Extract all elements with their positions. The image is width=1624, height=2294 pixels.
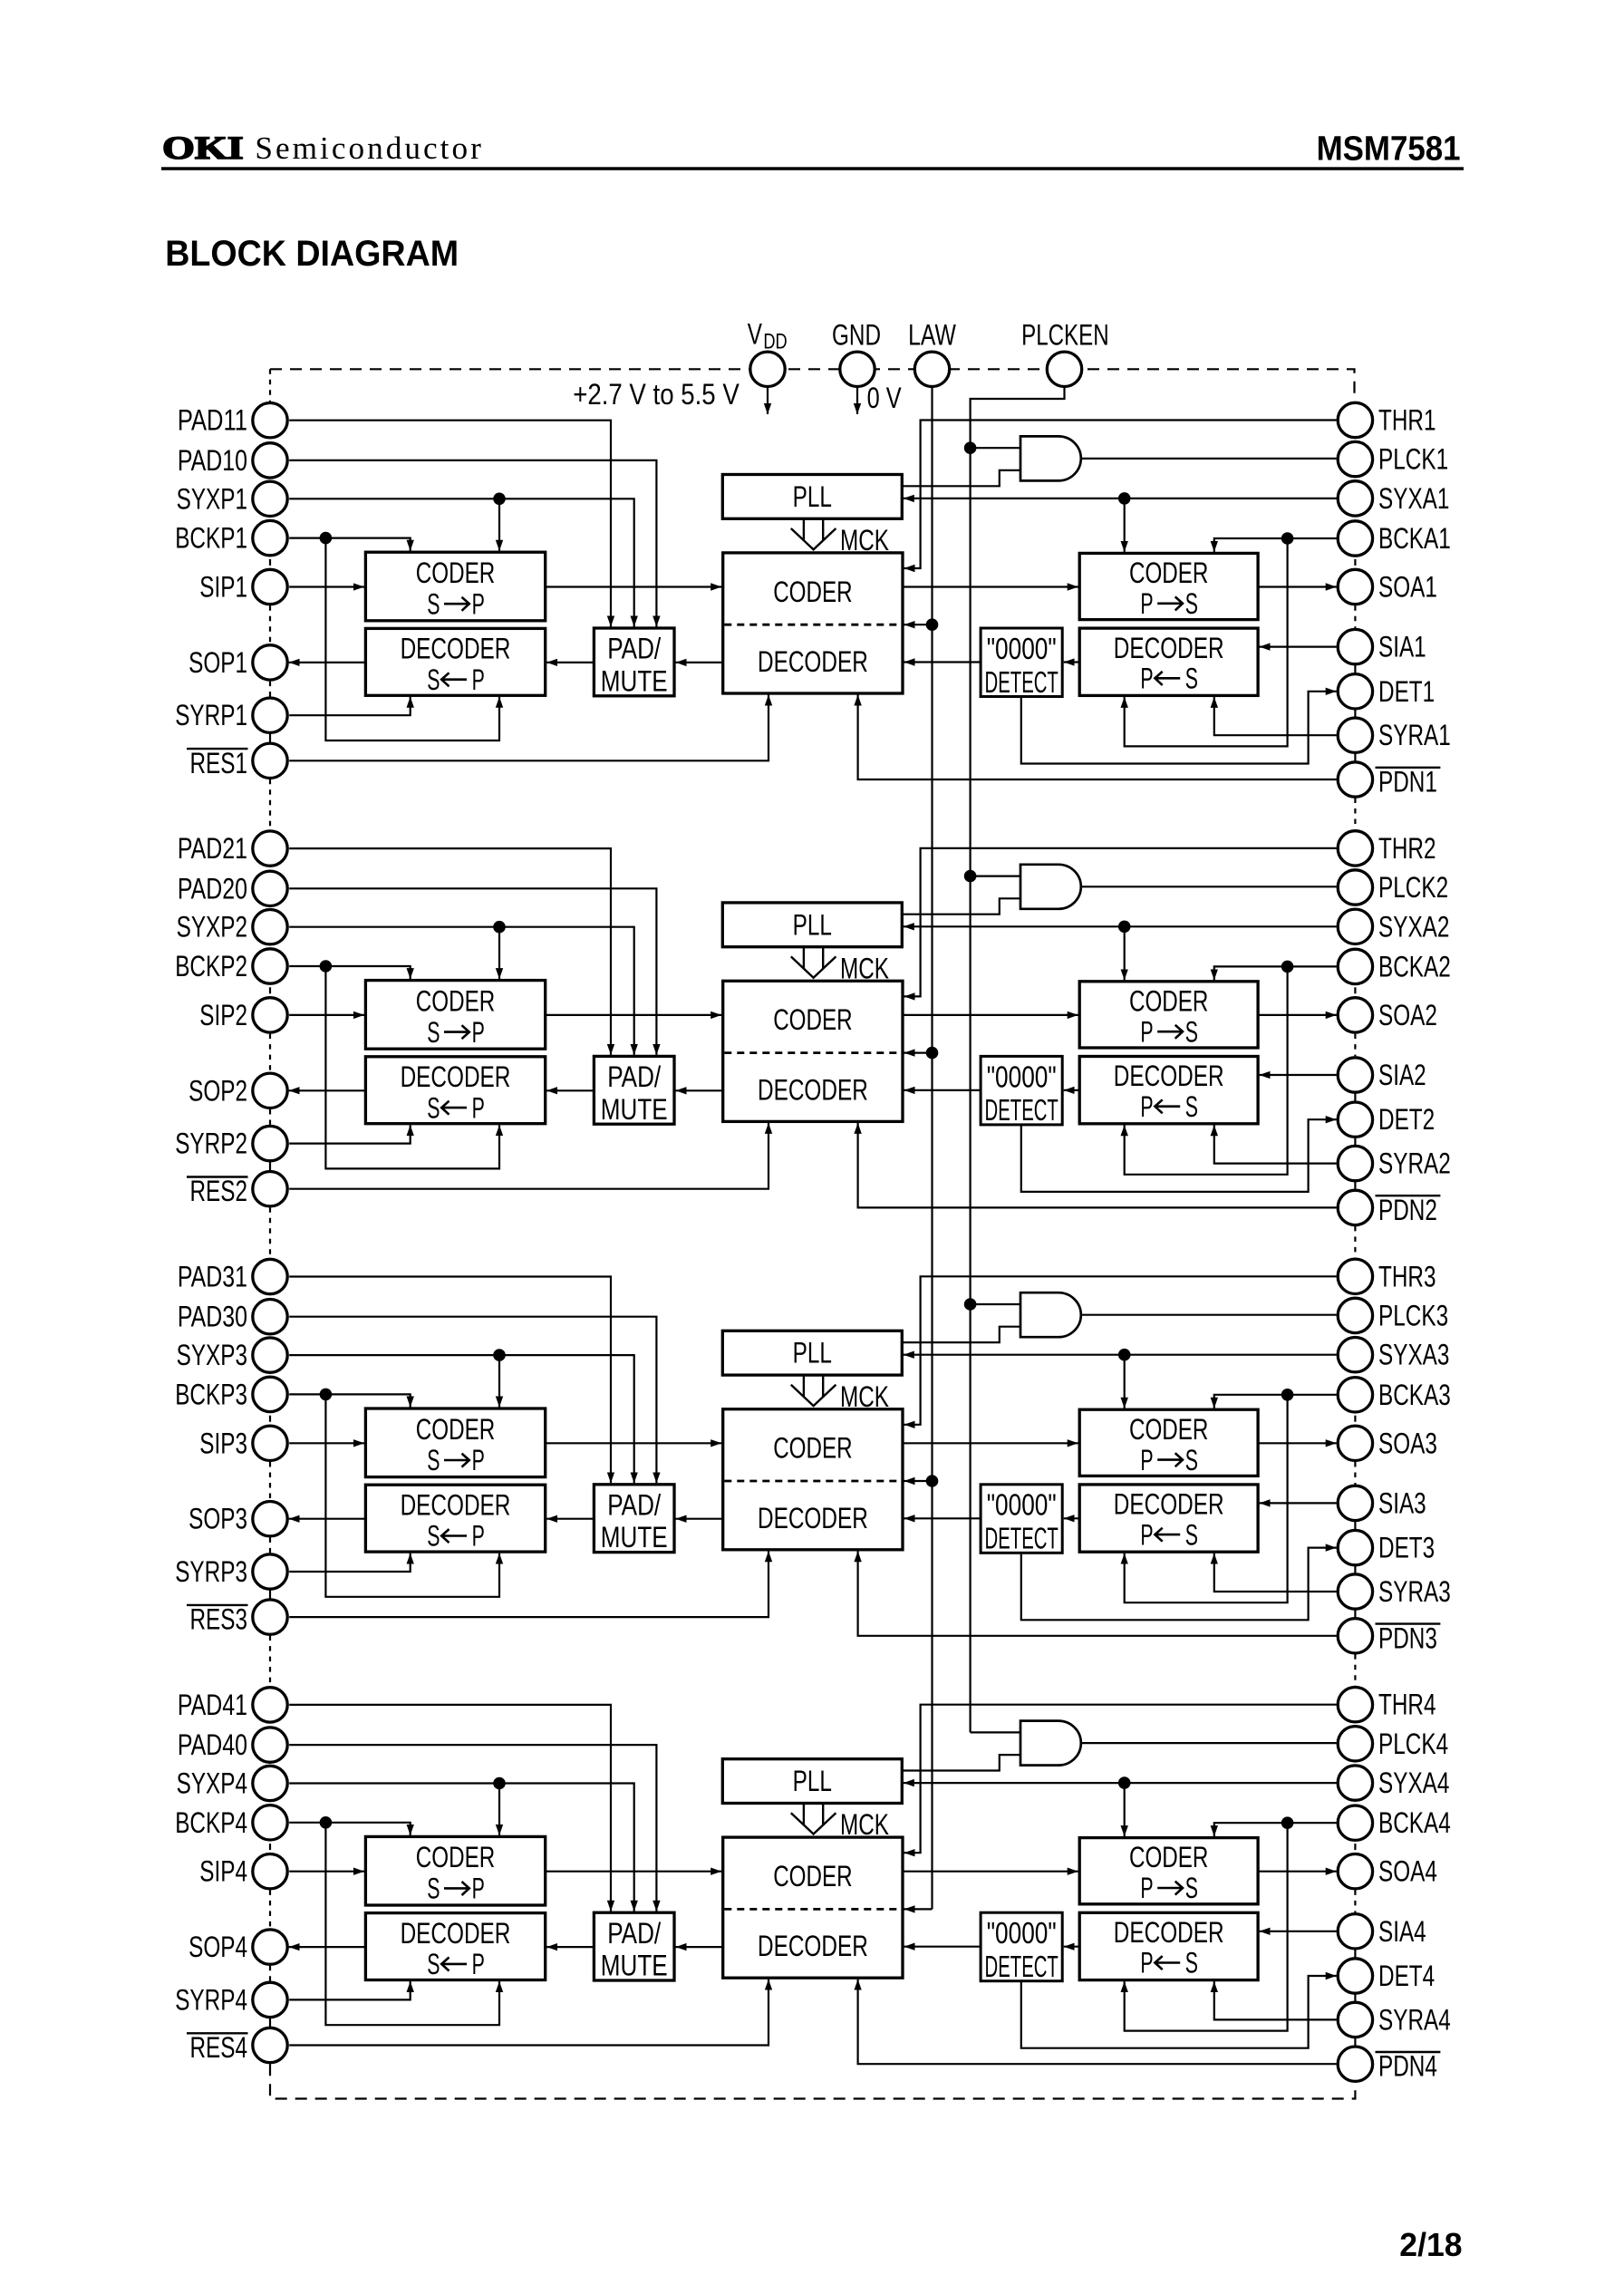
wire DECODER P←S to "0000" DETECT (channel 2) bbox=[1064, 1089, 1080, 1091]
svg-text:SYRA1: SYRA1 bbox=[1378, 719, 1451, 751]
junction SYXA2 (channel 2) bbox=[1118, 921, 1131, 934]
svg-text:P: P bbox=[1140, 663, 1153, 695]
PLCKEN vertical rail bbox=[971, 386, 1065, 1732]
svg-text:PAD/: PAD/ bbox=[607, 633, 661, 665]
svg-text:P: P bbox=[472, 663, 485, 696]
wire branch BCKP3 loop to DECODER S←P bottom (channel 3) bbox=[325, 1394, 499, 1596]
wire DECODER to PAD/MUTE (channel 2) bbox=[676, 1089, 723, 1091]
wire branch SYXA3 to CODER P→S top (channel 3) bbox=[1124, 1355, 1126, 1408]
svg-text:BCKA1: BCKA1 bbox=[1378, 522, 1451, 555]
block DECODER S←P (channel 3) bbox=[365, 1485, 545, 1552]
pin BCKA1 bbox=[1338, 521, 1372, 556]
svg-text:PDN2: PDN2 bbox=[1378, 1194, 1437, 1226]
pin PAD41 bbox=[253, 1688, 287, 1722]
pin PLCK4 bbox=[1338, 1727, 1372, 1761]
wire BCKA3 to CODER P→S top (channel 3) bbox=[1214, 1395, 1337, 1408]
svg-text:THR2: THR2 bbox=[1378, 832, 1436, 865]
wire THR4 to CODER (channel 4) bbox=[904, 1705, 1337, 1854]
left pin column dashes channel 3 bbox=[269, 1416, 271, 1422]
block PAD/MUTE (channel 4) bbox=[594, 1912, 674, 1980]
pin SOP4 bbox=[253, 1930, 287, 1964]
wire PLL output to AND gate input (channel 3) bbox=[902, 1327, 1020, 1342]
svg-text:RES4: RES4 bbox=[190, 2031, 248, 2064]
svg-text:MSM7581: MSM7581 bbox=[1317, 130, 1461, 168]
svg-text:PLL: PLL bbox=[793, 1765, 832, 1797]
wire RES2 to DECODER bottom (channel 2) bbox=[289, 1123, 768, 1189]
svg-text:BCKP3: BCKP3 bbox=[175, 1378, 247, 1410]
svg-text:DECODER: DECODER bbox=[1114, 632, 1224, 664]
wire PAD11 to PAD/MUTE (channel 1) bbox=[289, 421, 611, 627]
junction BCKA1 (channel 1) bbox=[1281, 532, 1294, 545]
junction LAW rail (channel 2) bbox=[926, 1047, 939, 1060]
wire PAD40 to PAD/MUTE (channel 4) bbox=[289, 1745, 656, 1912]
svg-text:SYRP3: SYRP3 bbox=[175, 1555, 247, 1588]
wire RES4 to DECODER bottom (channel 4) bbox=[289, 1979, 768, 2046]
svg-text:CODER: CODER bbox=[416, 1841, 495, 1873]
pin THR2 bbox=[1338, 831, 1372, 866]
svg-text:S: S bbox=[427, 1444, 440, 1476]
svg-text:S: S bbox=[427, 1873, 440, 1905]
wire SYXA2 to PLL (channel 2) bbox=[904, 925, 1337, 927]
pin GND bbox=[840, 352, 875, 386]
svg-text:SOP2: SOP2 bbox=[188, 1074, 247, 1107]
svg-text:LAW: LAW bbox=[908, 319, 956, 352]
svg-text:THR1: THR1 bbox=[1378, 404, 1436, 437]
wire CODER S→P to CODER (channel 2) bbox=[546, 1014, 722, 1016]
svg-text:DECODER: DECODER bbox=[401, 1489, 511, 1522]
svg-text:CODER: CODER bbox=[773, 576, 852, 608]
junction BCKP3 (channel 3) bbox=[320, 1389, 333, 1401]
wire "0000" DETECT to DECODER (channel 1) bbox=[904, 661, 981, 663]
svg-text:P: P bbox=[1140, 1090, 1153, 1123]
svg-text:PAD31: PAD31 bbox=[178, 1261, 247, 1293]
svg-text:"0000": "0000" bbox=[987, 1916, 1057, 1950]
block "0000" DETECT (channel 4) bbox=[981, 1912, 1062, 1981]
svg-text:S: S bbox=[1185, 1015, 1198, 1048]
pin PDN4 (active-low, overbar) bbox=[1338, 2047, 1372, 2081]
svg-text:BCKA2: BCKA2 bbox=[1378, 950, 1451, 982]
svg-text:SYXA4: SYXA4 bbox=[1378, 1766, 1449, 1799]
svg-text:SIA2: SIA2 bbox=[1378, 1059, 1426, 1091]
svg-text:PDN1: PDN1 bbox=[1378, 766, 1437, 799]
wire "0000" DETECT to DET2 (channel 2) bbox=[1021, 1119, 1337, 1192]
wire DECODER P←S to "0000" DETECT (channel 1) bbox=[1064, 661, 1080, 663]
svg-text:S: S bbox=[1185, 1518, 1198, 1551]
pin SOA2 bbox=[1338, 998, 1372, 1032]
junction SYXP4 (channel 4) bbox=[493, 1777, 506, 1790]
wire DECODER S←P to SOP3 (channel 3) bbox=[289, 1518, 366, 1520]
wire PAD31 to PAD/MUTE (channel 3) bbox=[289, 1277, 611, 1484]
wire branch BCKA4 loop to DECODER P←S bottom (channel 4) bbox=[1125, 1823, 1288, 2030]
svg-text:PAD21: PAD21 bbox=[178, 832, 247, 865]
wire CODER to CODER P→S (channel 3) bbox=[903, 1442, 1078, 1444]
svg-text:PAD41: PAD41 bbox=[178, 1689, 247, 1721]
junction PLCKEN rail (channel 2) bbox=[964, 870, 977, 883]
pin BCKP3 bbox=[253, 1377, 287, 1411]
pin SYXP1 bbox=[253, 481, 287, 516]
svg-text:DECODER: DECODER bbox=[1114, 1060, 1224, 1092]
svg-text:DECODER: DECODER bbox=[758, 1073, 868, 1106]
pin BCKP1 bbox=[253, 520, 287, 555]
block CODER S→P (channel 3) bbox=[365, 1408, 545, 1477]
svg-text:S: S bbox=[427, 1091, 440, 1124]
wire PAD30 to PAD/MUTE (channel 3) bbox=[289, 1317, 656, 1484]
junction BCKA3 (channel 3) bbox=[1281, 1389, 1294, 1401]
pin SYRA1 bbox=[1338, 718, 1372, 752]
svg-text:P: P bbox=[472, 1873, 485, 1905]
wire "0000" DETECT to DET4 (channel 4) bbox=[1021, 1976, 1337, 2048]
block DECODER P←S (channel 3) bbox=[1079, 1485, 1258, 1552]
wire branch SYXP4 to CODER S→P top (channel 4) bbox=[498, 1784, 500, 1835]
GND supply arrow bbox=[856, 387, 858, 414]
MCK hollow clock arrow (channel 4) bbox=[791, 1804, 836, 1834]
svg-text:SYXA2: SYXA2 bbox=[1378, 910, 1449, 943]
junction PLCKEN rail (channel 3) bbox=[964, 1298, 977, 1311]
wire branch BCKP1 loop to DECODER S←P bottom (channel 1) bbox=[325, 538, 499, 740]
svg-text:S: S bbox=[1185, 1090, 1198, 1123]
wire SYRA2 to DECODER P←S bottom (channel 2) bbox=[1214, 1125, 1337, 1163]
pin SOA3 bbox=[1338, 1426, 1372, 1460]
svg-text:P: P bbox=[1140, 1444, 1153, 1476]
pin DET3 bbox=[1338, 1530, 1372, 1564]
svg-text:CODER: CODER bbox=[416, 1413, 495, 1446]
svg-text:PDN3: PDN3 bbox=[1378, 1621, 1437, 1654]
pin BCKA4 bbox=[1338, 1805, 1372, 1840]
right column inter-channel dashed wire bbox=[1354, 1226, 1356, 1258]
svg-text:PLCK1: PLCK1 bbox=[1378, 443, 1448, 476]
pin THR3 bbox=[1338, 1259, 1372, 1293]
svg-text:SOP3: SOP3 bbox=[188, 1503, 247, 1535]
svg-text:MUTE: MUTE bbox=[601, 664, 668, 697]
MCK hollow clock arrow (channel 1) bbox=[791, 518, 836, 549]
junction LAW rail (channel 1) bbox=[926, 618, 939, 631]
svg-text:P: P bbox=[472, 1444, 485, 1476]
svg-text:P: P bbox=[1140, 1947, 1153, 1979]
wire PAD10 to PAD/MUTE (channel 1) bbox=[289, 460, 656, 627]
pin SIA4 bbox=[1338, 1914, 1372, 1949]
svg-text:SYRP2: SYRP2 bbox=[175, 1128, 247, 1160]
svg-text:SOA4: SOA4 bbox=[1378, 1855, 1437, 1888]
svg-text:P: P bbox=[472, 1091, 485, 1124]
pin SYXA2 bbox=[1338, 909, 1372, 944]
junction BCKP2 (channel 2) bbox=[320, 960, 333, 973]
wire DECODER to PAD/MUTE (channel 4) bbox=[676, 1946, 723, 1948]
wire CODER to CODER P→S (channel 4) bbox=[903, 1871, 1078, 1873]
wire CODER P→S to SOA3 (channel 3) bbox=[1258, 1442, 1337, 1444]
svg-text:SIP4: SIP4 bbox=[199, 1855, 247, 1888]
svg-text:RES2: RES2 bbox=[190, 1175, 248, 1207]
wire SYRP2 to DECODER S←P bottom (channel 2) bbox=[289, 1125, 411, 1143]
wire LAW rail tap to CODER/DECODER divider (channel 1) bbox=[904, 624, 933, 625]
svg-text:P: P bbox=[1140, 1872, 1153, 1904]
pin SYXP3 bbox=[253, 1338, 287, 1372]
svg-text:2/18: 2/18 bbox=[1399, 2226, 1462, 2263]
block DECODER P←S (channel 4) bbox=[1079, 1912, 1258, 1979]
pin SOP2 bbox=[253, 1073, 287, 1108]
svg-text:DECODER: DECODER bbox=[758, 645, 868, 678]
wire CODER S→P to CODER (channel 3) bbox=[546, 1442, 722, 1444]
svg-text:DET3: DET3 bbox=[1378, 1532, 1435, 1564]
wire "0000" DETECT to DECODER (channel 3) bbox=[904, 1517, 981, 1519]
dashed coder/decoder divider (channel 2) bbox=[724, 1051, 901, 1054]
pin PAD10 bbox=[253, 443, 287, 478]
wire BCKA4 to CODER P→S top (channel 4) bbox=[1214, 1823, 1337, 1836]
wire SIA1 to DECODER P←S (channel 1) bbox=[1260, 645, 1337, 647]
wire DECODER S←P to SOP2 (channel 2) bbox=[289, 1089, 366, 1091]
svg-text:PAD11: PAD11 bbox=[178, 404, 247, 437]
junction SYXP2 (channel 2) bbox=[493, 921, 506, 934]
wire PDN4 to DECODER bottom (channel 4) bbox=[858, 1979, 1337, 2065]
pin DET4 bbox=[1338, 1959, 1372, 1993]
block PLL (channel 4) bbox=[722, 1759, 902, 1804]
wire AND output to PLCK4 (channel 4) bbox=[1081, 1742, 1337, 1744]
wire PAD/MUTE to DECODER S←P (channel 3) bbox=[546, 1518, 594, 1520]
pin SYXA4 bbox=[1338, 1766, 1372, 1800]
svg-text:SYXP2: SYXP2 bbox=[177, 911, 247, 944]
pin SIP2 bbox=[253, 998, 287, 1032]
wire SYXP4 to PAD/MUTE (channel 4) bbox=[289, 1784, 634, 1912]
wire branch BCKA3 loop to DECODER P←S bottom (channel 3) bbox=[1125, 1395, 1288, 1602]
AND gate (PLCK3 enable) bbox=[1020, 1292, 1081, 1337]
wire DECODER to PAD/MUTE (channel 3) bbox=[676, 1518, 723, 1520]
wire PDN3 to DECODER bottom (channel 3) bbox=[858, 1551, 1337, 1636]
wire AND output to PLCK1 (channel 1) bbox=[1081, 458, 1337, 460]
pin RES1 (active-low, overbar) bbox=[253, 743, 287, 778]
svg-text:DETECT: DETECT bbox=[985, 1093, 1058, 1127]
wire branch SYXA1 to CODER P→S top (channel 1) bbox=[1124, 498, 1126, 552]
svg-text:PAD/: PAD/ bbox=[607, 1060, 661, 1093]
pin LAW bbox=[914, 352, 949, 386]
pin PLCK3 bbox=[1338, 1298, 1372, 1332]
wire SYXA3 to PLL (channel 3) bbox=[904, 1354, 1337, 1356]
wire PAD/MUTE to DECODER S←P (channel 1) bbox=[546, 662, 594, 663]
wire branch SYXP2 to CODER S→P top (channel 2) bbox=[498, 927, 500, 979]
svg-text:S: S bbox=[1185, 1872, 1198, 1904]
block DECODER P←S (channel 2) bbox=[1079, 1057, 1258, 1124]
svg-text:CODER: CODER bbox=[1129, 1841, 1208, 1873]
svg-text:"0000": "0000" bbox=[987, 1488, 1057, 1522]
svg-text:GND: GND bbox=[832, 319, 881, 352]
junction SYXP1 (channel 1) bbox=[493, 493, 506, 506]
pin PAD31 bbox=[253, 1259, 287, 1293]
svg-text:THR4: THR4 bbox=[1378, 1689, 1436, 1721]
svg-text:SOP4: SOP4 bbox=[188, 1931, 247, 1963]
svg-text:SOP1: SOP1 bbox=[188, 646, 247, 679]
junction SYXA3 (channel 3) bbox=[1118, 1349, 1131, 1361]
wire LAW rail tap to CODER/DECODER divider (channel 2) bbox=[904, 1051, 933, 1053]
AND gate (PLCK2 enable) bbox=[1020, 865, 1081, 909]
wire SIP3 to CODER S→P (channel 3) bbox=[289, 1442, 364, 1444]
pin SOP3 bbox=[253, 1502, 287, 1536]
wire PDN2 to DECODER bottom (channel 2) bbox=[858, 1123, 1337, 1208]
pin SOA4 bbox=[1338, 1854, 1372, 1889]
pin PAD30 bbox=[253, 1300, 287, 1334]
pin RES2 (active-low, overbar) bbox=[253, 1172, 287, 1206]
wire CODER S→P to CODER (channel 1) bbox=[546, 586, 722, 587]
svg-text:DET2: DET2 bbox=[1378, 1103, 1435, 1136]
wire branch SYXP3 to CODER S→P top (channel 3) bbox=[498, 1355, 500, 1407]
wire PLCKEN rail tap to AND gate input (channel 3) bbox=[971, 1303, 1020, 1305]
pin BCKP4 bbox=[253, 1805, 287, 1840]
pin SYXP2 bbox=[253, 910, 287, 944]
pin SIP1 bbox=[253, 569, 287, 604]
wire "0000" DETECT to DET1 (channel 1) bbox=[1021, 692, 1337, 764]
pin DET1 bbox=[1338, 674, 1372, 709]
wire DECODER S←P to SOP4 (channel 4) bbox=[289, 1946, 366, 1948]
svg-text:P: P bbox=[1140, 1518, 1153, 1551]
svg-text:"0000": "0000" bbox=[987, 632, 1057, 665]
wire BCKP4 to CODER S→P top (channel 4) bbox=[289, 1823, 411, 1835]
svg-text:SYXP1: SYXP1 bbox=[177, 482, 247, 515]
svg-text:CODER: CODER bbox=[773, 1003, 852, 1036]
svg-text:SYRA4: SYRA4 bbox=[1378, 2003, 1451, 2036]
wire SYXP1 to PAD/MUTE (channel 1) bbox=[289, 498, 634, 626]
wire DECODER P←S to "0000" DETECT (channel 3) bbox=[1064, 1517, 1080, 1519]
wire DECODER S←P to SOP1 (channel 1) bbox=[289, 662, 366, 663]
pin SYRP3 bbox=[253, 1554, 287, 1589]
block PAD/MUTE (channel 1) bbox=[594, 628, 674, 696]
svg-text:RES1: RES1 bbox=[190, 747, 248, 779]
pin SYRA2 bbox=[1338, 1146, 1372, 1180]
svg-text:DECODER: DECODER bbox=[401, 633, 511, 665]
svg-text:S: S bbox=[1185, 1444, 1198, 1476]
svg-text:SIA3: SIA3 bbox=[1378, 1486, 1426, 1519]
svg-text:0 V: 0 V bbox=[867, 382, 903, 414]
wire BCKP2 to CODER S→P top (channel 2) bbox=[289, 966, 411, 979]
wire SYXA1 to PLL (channel 1) bbox=[904, 498, 1337, 499]
pin DET2 bbox=[1338, 1102, 1372, 1137]
svg-text:V: V bbox=[748, 318, 763, 351]
wire CODER P→S to SOA4 (channel 4) bbox=[1258, 1871, 1337, 1873]
dashed coder/decoder divider (channel 1) bbox=[724, 624, 901, 626]
pin PLCK1 bbox=[1338, 441, 1372, 476]
pin SIA1 bbox=[1338, 629, 1372, 663]
right column inter-channel dashed wire bbox=[1354, 799, 1356, 830]
wire SIA2 to DECODER P←S (channel 2) bbox=[1260, 1074, 1337, 1076]
top dashed supply rail bbox=[270, 369, 1355, 400]
VDD supply arrow bbox=[767, 387, 768, 414]
svg-text:P: P bbox=[472, 1016, 485, 1049]
svg-text:SIP3: SIP3 bbox=[199, 1427, 247, 1459]
junction BCKA4 (channel 4) bbox=[1281, 1816, 1294, 1829]
svg-text:BCKA3: BCKA3 bbox=[1378, 1379, 1451, 1411]
svg-text:DECODER: DECODER bbox=[758, 1930, 868, 1962]
wire "0000" DETECT to DECODER (channel 2) bbox=[904, 1089, 981, 1091]
wire PLCKEN rail tap to AND gate input (channel 1) bbox=[971, 447, 1020, 449]
svg-text:SYRP1: SYRP1 bbox=[175, 699, 247, 731]
pin SYXA3 bbox=[1338, 1338, 1372, 1372]
wire SYRP3 to DECODER S←P bottom (channel 3) bbox=[289, 1554, 411, 1572]
svg-text:BCKP1: BCKP1 bbox=[175, 522, 247, 555]
wire PAD21 to PAD/MUTE (channel 2) bbox=[289, 848, 611, 1055]
wire THR1 to CODER (channel 1) bbox=[904, 421, 1337, 569]
block PAD/MUTE (channel 2) bbox=[594, 1056, 674, 1124]
svg-text:DD: DD bbox=[763, 330, 787, 354]
wire SIP2 to CODER S→P (channel 2) bbox=[289, 1014, 364, 1016]
AND gate (PLCK4 enable) bbox=[1020, 1721, 1081, 1766]
wire RES1 to DECODER bottom (channel 1) bbox=[289, 695, 768, 761]
block PAD/MUTE (channel 3) bbox=[594, 1485, 674, 1553]
svg-text:+2.7 V to 5.5 V: +2.7 V to 5.5 V bbox=[573, 378, 739, 411]
wire SYRA3 to DECODER P←S bottom (channel 3) bbox=[1214, 1554, 1337, 1592]
junction SYXA4 (channel 4) bbox=[1118, 1776, 1131, 1789]
block DECODER S←P (channel 2) bbox=[365, 1057, 545, 1124]
wire SIP4 to CODER S→P (channel 4) bbox=[289, 1871, 364, 1873]
block CODER S→P (channel 1) bbox=[365, 552, 545, 621]
svg-text:DECODER: DECODER bbox=[1114, 1916, 1224, 1949]
wire CODER S→P to CODER (channel 4) bbox=[546, 1871, 722, 1873]
svg-text:DET4: DET4 bbox=[1378, 1960, 1435, 1992]
svg-text:PLCKEN: PLCKEN bbox=[1021, 319, 1109, 352]
wire PAD/MUTE to DECODER S←P (channel 4) bbox=[546, 1946, 594, 1948]
dashed coder/decoder divider (channel 3) bbox=[724, 1480, 901, 1483]
wire PLL output to AND gate input (channel 2) bbox=[902, 898, 1020, 914]
wire SIA3 to DECODER P←S (channel 3) bbox=[1260, 1502, 1337, 1504]
pin PLCKEN bbox=[1047, 352, 1081, 386]
svg-text:S: S bbox=[427, 1016, 440, 1049]
junction BCKP4 (channel 4) bbox=[320, 1816, 333, 1829]
svg-text:SOA3: SOA3 bbox=[1378, 1427, 1437, 1459]
svg-text:DET1: DET1 bbox=[1378, 675, 1435, 708]
wire branch BCKA1 loop to DECODER P←S bottom (channel 1) bbox=[1125, 538, 1288, 746]
svg-text:CODER: CODER bbox=[416, 557, 495, 589]
header rule bbox=[161, 167, 1464, 170]
wire PAD20 to PAD/MUTE (channel 2) bbox=[289, 888, 656, 1055]
pin SOA1 bbox=[1338, 569, 1372, 604]
block CODER S→P (channel 2) bbox=[365, 981, 545, 1050]
svg-text:P: P bbox=[472, 1520, 485, 1553]
wire BCKP3 to CODER S→P top (channel 3) bbox=[289, 1394, 411, 1407]
wire branch BCKA2 loop to DECODER P←S bottom (channel 2) bbox=[1125, 966, 1288, 1174]
right pin column dashes channel 4 bbox=[1354, 1844, 1356, 1850]
svg-text:DECODER: DECODER bbox=[1114, 1488, 1224, 1521]
pin RES4 (active-low, overbar) bbox=[253, 2028, 287, 2062]
svg-text:S: S bbox=[427, 1520, 440, 1553]
svg-text:P: P bbox=[1140, 1015, 1153, 1048]
wire SIA4 to DECODER P←S (channel 4) bbox=[1260, 1931, 1337, 1932]
svg-text:BCKP4: BCKP4 bbox=[175, 1806, 247, 1839]
block PLL (channel 1) bbox=[722, 475, 902, 519]
svg-text:S: S bbox=[1185, 1947, 1198, 1979]
svg-text:THR3: THR3 bbox=[1378, 1260, 1436, 1292]
pin BCKP2 bbox=[253, 949, 287, 983]
svg-text:SYRP4: SYRP4 bbox=[175, 1983, 247, 2016]
svg-text:PAD10: PAD10 bbox=[178, 444, 247, 477]
left column top dashed wire bbox=[269, 369, 271, 402]
block DECODER P←S (channel 1) bbox=[1079, 628, 1258, 695]
wire PLL output to AND gate input (channel 4) bbox=[902, 1755, 1020, 1770]
svg-text:PLCK3: PLCK3 bbox=[1378, 1299, 1448, 1331]
block DECODER S←P (channel 4) bbox=[365, 1913, 545, 1980]
pin SYRA3 bbox=[1338, 1574, 1372, 1609]
svg-text:SYXA1: SYXA1 bbox=[1378, 482, 1449, 515]
wire PAD41 to PAD/MUTE (channel 4) bbox=[289, 1705, 611, 1912]
block CODER/DECODER main (channel 4) bbox=[723, 1837, 903, 1978]
wire branch SYXA4 to CODER P→S top (channel 4) bbox=[1124, 1783, 1126, 1836]
svg-text:SIP2: SIP2 bbox=[199, 999, 247, 1031]
right pin column dashes channel 1 bbox=[1354, 559, 1356, 566]
pin PLCK2 bbox=[1338, 870, 1372, 905]
svg-text:PAD/: PAD/ bbox=[607, 1489, 661, 1522]
svg-text:BCKA4: BCKA4 bbox=[1378, 1806, 1451, 1839]
block CODER/DECODER main (channel 1) bbox=[723, 553, 903, 693]
wire SYXA4 to PLL (channel 4) bbox=[904, 1782, 1337, 1784]
dashed coder/decoder divider (channel 4) bbox=[724, 1908, 901, 1911]
svg-text:P: P bbox=[1140, 587, 1153, 620]
svg-text:SOA1: SOA1 bbox=[1378, 571, 1437, 604]
svg-text:DETECT: DETECT bbox=[985, 665, 1058, 699]
svg-text:DECODER: DECODER bbox=[401, 1917, 511, 1950]
